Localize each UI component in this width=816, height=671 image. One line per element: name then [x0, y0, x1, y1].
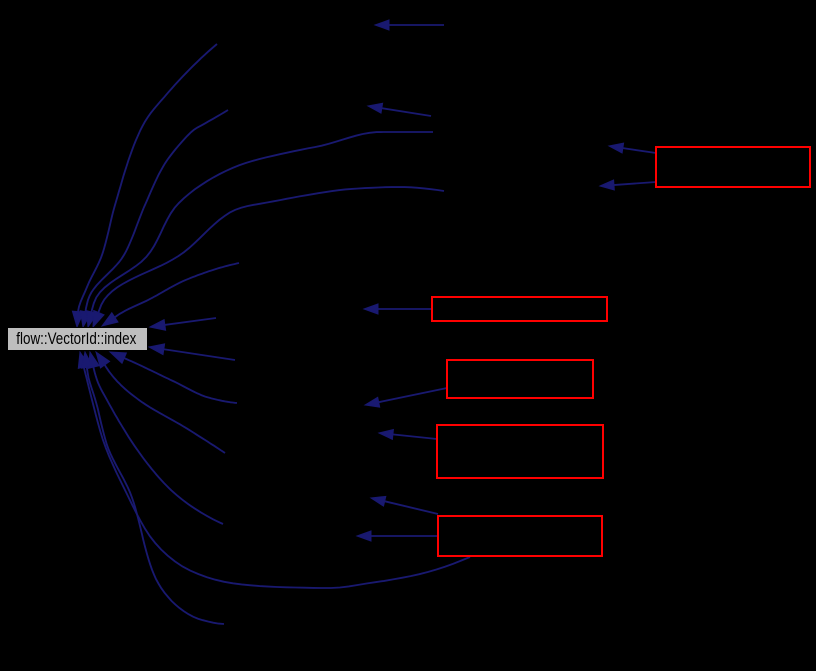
svg-text:flow::VectorId::index: flow::VectorId::index: [16, 330, 137, 348]
wire arrow A9: red node 5 -> hidden node (lower): [357, 531, 438, 541]
wire edge L7: caller -> right-bottom corner of flow::VectorId::index: [149, 344, 235, 360]
wire arrow A4: red node 1 -> hidden node (lower): [600, 180, 656, 190]
node red box R4 (truncated caller): [437, 425, 603, 478]
wire arrow A8: red node 5 -> hidden node (upper): [371, 496, 438, 514]
wire arrow A5: red node 2 -> hidden node: [364, 304, 432, 314]
wire edge C3: long caller arc 3 -> flow::VectorId::index: [87, 132, 434, 327]
wire edge C1: top caller arc 1 -> flow::VectorId::index: [72, 44, 217, 327]
wire arrow A6: red node 3 -> hidden node: [365, 388, 447, 407]
wire edge K1: caller -> bottom of flow::VectorId::index: [110, 352, 237, 403]
wire edge K5: bottom caller arc -> bottom of flow::VectorId::index: [82, 352, 225, 624]
wire arrow A1: hidden node -> hidden node (top): [375, 20, 444, 30]
wire arrow A2: hidden node -> hidden node: [368, 103, 431, 116]
node red box R3 (truncated caller): [447, 360, 593, 398]
node red box R1 (truncated caller): [656, 147, 810, 187]
node flow::VectorId::index (central grey node): [8, 328, 148, 351]
wire edge C4: long caller arc 4 -> flow::VectorId::index: [93, 187, 444, 327]
wire edge K3: caller -> bottom of flow::VectorId::index: [88, 352, 223, 524]
wire edge C5: caller arc 5 -> flow::VectorId::index: [102, 263, 239, 326]
node red box R5 (truncated caller): [438, 516, 602, 556]
wire arrow A3: red node 1 -> hidden node (upper): [609, 143, 656, 153]
wire edge K2: caller -> bottom of flow::VectorId::index: [96, 352, 225, 453]
wire edge K4: swooping caller arc from red node 5 -> bottom of flow::VectorId::index: [78, 352, 470, 588]
wire edge C2: top caller arc 2 -> flow::VectorId::index: [80, 110, 228, 327]
wire edge L6: caller -> right-top corner of flow::VectorId::index: [150, 318, 216, 330]
wire arrow A7: red node 4 -> hidden node: [379, 430, 437, 440]
node red box R2 (truncated caller): [432, 297, 607, 321]
